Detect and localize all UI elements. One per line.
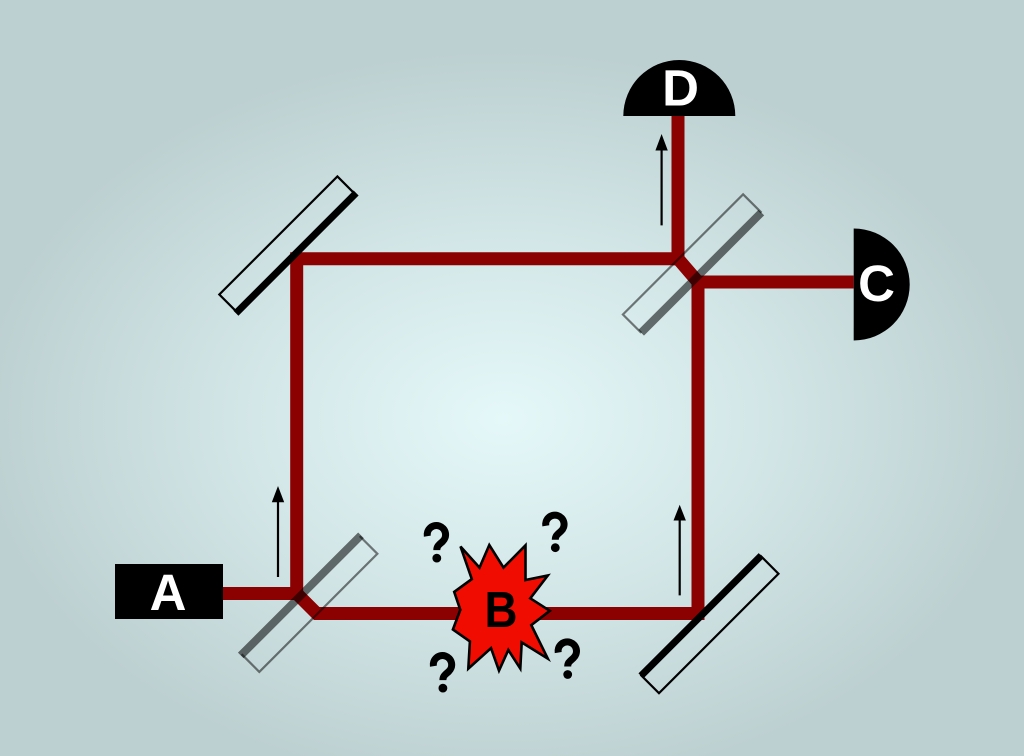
svg-text:C: C xyxy=(858,255,895,312)
beam splitter BS1 (bottom-left, half-silvered) xyxy=(241,535,379,673)
wire: left arm up, top arm, jog at BS2, beam to detector C xyxy=(297,259,854,600)
mirror M2 (bottom-right) xyxy=(641,556,779,694)
question mark (upper-left of bomb) xyxy=(427,526,445,563)
arrow (right arm, up) xyxy=(674,505,686,596)
svg-text:D: D xyxy=(662,60,699,117)
arrow (left arm, up) xyxy=(272,486,284,577)
svg-text:A: A xyxy=(150,564,187,621)
source A box xyxy=(115,564,223,619)
arrow (detector D beam, up) xyxy=(655,134,667,225)
beam splitter BS2 (top-right, half-silvered) xyxy=(623,194,762,333)
detector D (half-disc) xyxy=(623,60,735,116)
wire: beam up to detector D xyxy=(672,116,685,265)
mirror M1 (top-left) xyxy=(218,175,356,313)
question mark (upper-right of bomb) xyxy=(546,515,564,552)
bomb B (starburst) xyxy=(453,545,550,671)
detector C (half-disc) xyxy=(854,229,910,341)
question mark (lower-left of bomb) xyxy=(433,656,451,693)
wire: beam A to BS1, jog, bottom arm to mirror M2, up right arm to BS2 xyxy=(220,282,698,614)
svg-text:B: B xyxy=(485,581,518,638)
question mark (lower-right of bomb) xyxy=(558,642,576,679)
